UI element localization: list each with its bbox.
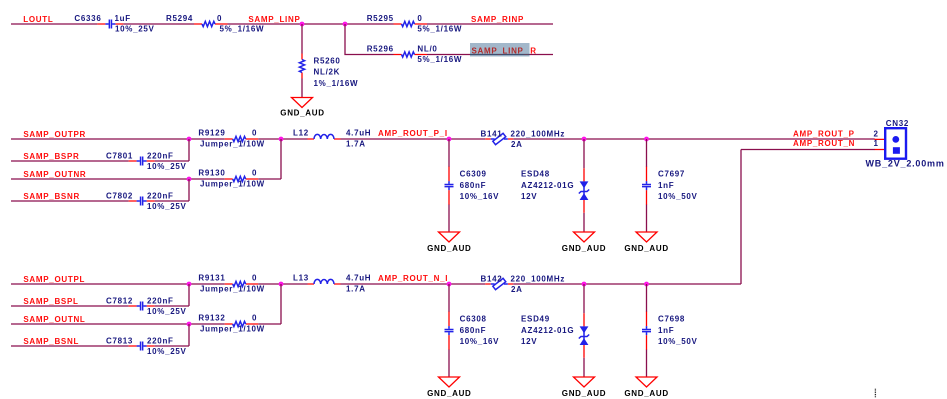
wire C7697 branch [646, 139, 648, 232]
node SAMP_LINP_R selection highlight [470, 43, 530, 57]
ferrite bead B142 [485, 278, 513, 289]
svg-text:Jumper_1/10W: Jumper_1/10W [200, 179, 265, 188]
ground GND_AUD under C7697 [636, 232, 657, 242]
capacitor C7813 [129, 342, 155, 351]
svg-text:1nF: 1nF [658, 181, 674, 190]
svg-text:AMP_ROUT_N_I: AMP_ROUT_N_I [378, 274, 448, 283]
resistor R9132 [225, 321, 259, 326]
svg-text:Jumper_1/10W: Jumper_1/10W [200, 284, 265, 293]
svg-text:5%_1/16W: 5%_1/16W [220, 25, 265, 34]
svg-text:C7813: C7813 [106, 337, 133, 346]
svg-text:L12: L12 [293, 129, 309, 138]
svg-text:10%_16V: 10%_16V [460, 337, 500, 346]
svg-text:12V: 12V [521, 192, 537, 201]
wire SAMP_BSPL row [11, 284, 189, 306]
svg-text:4.7uH: 4.7uH [346, 129, 371, 138]
svg-text:GND_AUD: GND_AUD [624, 244, 668, 253]
svg-text:Jumper_1/10W: Jumper_1/10W [200, 324, 265, 333]
dotted selection mark [874, 389, 876, 398]
svg-text:220nF: 220nF [147, 337, 174, 346]
junction BSNL joins OUTNL [187, 322, 192, 327]
svg-text:R5260: R5260 [314, 57, 341, 66]
svg-text:4.7uH: 4.7uH [346, 274, 371, 283]
svg-text:R9130: R9130 [198, 169, 225, 178]
svg-text:SAMP_BSNR: SAMP_BSNR [23, 192, 80, 201]
junction at R5260 branch [300, 22, 305, 27]
svg-text:10%_25V: 10%_25V [147, 307, 187, 316]
ground GND_AUD under ESD49 [574, 377, 595, 387]
svg-text:10%_16V: 10%_16V [460, 192, 500, 201]
svg-text:AMP_ROUT_P_I: AMP_ROUT_P_I [378, 129, 448, 138]
svg-text:1%_1/16W: 1%_1/16W [314, 79, 359, 88]
wire R5296 to SAMP_LINP_R end [427, 54, 553, 56]
svg-text:1.7A: 1.7A [346, 284, 366, 293]
wire SAMP_BSNR row [11, 179, 189, 201]
svg-text:680nF: 680nF [460, 181, 487, 190]
svg-text:WB_2V_2.00mm: WB_2V_2.00mm [866, 158, 945, 168]
wire L13 to B142 [341, 283, 486, 285]
svg-text:GND_AUD: GND_AUD [562, 389, 606, 398]
svg-text:SAMP_LINP: SAMP_LINP [248, 15, 300, 24]
junction BSPR joins OUTPR [187, 137, 192, 142]
resistor R5294 [194, 21, 228, 26]
svg-text:10%_25V: 10%_25V [115, 25, 155, 34]
svg-text:680nF: 680nF [460, 326, 487, 335]
svg-text:0: 0 [252, 129, 257, 138]
svg-text:0: 0 [417, 14, 422, 23]
svg-text:10%_25V: 10%_25V [147, 347, 187, 356]
ferrite bead B141 [485, 133, 513, 144]
svg-text:220nF: 220nF [147, 152, 174, 161]
svg-text:2A: 2A [511, 140, 523, 149]
svg-text:SAMP_OUTNL: SAMP_OUTNL [23, 315, 85, 324]
junction at R5296 branch [343, 22, 348, 27]
svg-text:10%_50V: 10%_50V [658, 192, 698, 201]
junction ESD48 branch [582, 137, 587, 142]
junction R9130 joins at L12 input [279, 137, 284, 142]
wire R5295 to SAMP_RINP end [427, 23, 553, 25]
wire junction down to R5260 [301, 24, 303, 97]
svg-text:GND_AUD: GND_AUD [427, 244, 471, 253]
wire SAMP_OUTNR row [11, 139, 281, 179]
svg-text:0: 0 [252, 169, 257, 178]
junction C7697 branch [644, 137, 649, 142]
svg-text:0: 0 [252, 274, 257, 283]
svg-text:R9131: R9131 [198, 274, 225, 283]
svg-text:R9132: R9132 [198, 314, 225, 323]
connector CN32 [875, 128, 907, 159]
svg-text:R: R [530, 47, 536, 56]
junction C7698 branch [644, 282, 649, 287]
inductor L12 [308, 134, 341, 139]
svg-text:GND_AUD: GND_AUD [280, 109, 324, 118]
svg-text:CN32: CN32 [886, 119, 909, 128]
wire C7698 branch [646, 284, 648, 377]
wire SAMP_OUTPL row [11, 283, 225, 285]
capacitor C7697 [642, 167, 651, 205]
svg-text:R5295: R5295 [367, 14, 394, 23]
svg-text:1nF: 1nF [658, 326, 674, 335]
wire ESD49 branch [583, 284, 585, 377]
svg-text:10%_50V: 10%_50V [658, 337, 698, 346]
svg-text:1: 1 [874, 139, 879, 148]
wire branch down to R5296 row [345, 24, 394, 55]
junction BSPL joins OUTPL [187, 282, 192, 287]
capacitor C7802 [129, 197, 155, 206]
svg-text:SAMP_OUTPL: SAMP_OUTPL [23, 275, 85, 284]
ground GND_AUD top [292, 98, 313, 108]
junction R9132 joins at L13 input [279, 282, 284, 287]
svg-text:AZ4212-01G: AZ4212-01G [521, 181, 574, 190]
svg-text:C7698: C7698 [658, 315, 685, 324]
wire R9129 to L12 [258, 138, 307, 140]
svg-text:SAMP_BSNL: SAMP_BSNL [23, 337, 79, 346]
svg-text:12V: 12V [521, 337, 537, 346]
resistor R5260 [299, 54, 304, 79]
svg-text:C6309: C6309 [460, 170, 487, 179]
svg-text:C7801: C7801 [106, 152, 133, 161]
svg-text:SAMP_BSPR: SAMP_BSPR [23, 152, 79, 161]
svg-text:220nF: 220nF [147, 297, 174, 306]
capacitor C7801 [129, 157, 155, 166]
wire SAMP_BSPR row [11, 139, 189, 161]
wire B141 to CN32 pin 2 [513, 138, 874, 140]
svg-text:C6336: C6336 [74, 14, 101, 23]
junction C6308 branch [447, 282, 452, 287]
svg-text:220_100MHz: 220_100MHz [511, 274, 566, 283]
svg-text:5%_1/16W: 5%_1/16W [417, 55, 462, 64]
resistor R9130 [225, 176, 259, 181]
svg-text:AMP_ROUT_N: AMP_ROUT_N [793, 139, 855, 148]
svg-text:SAMP_RINP: SAMP_RINP [471, 15, 524, 24]
svg-text:C7802: C7802 [106, 192, 133, 201]
svg-text:ESD48: ESD48 [521, 170, 550, 179]
svg-text:B141: B141 [481, 129, 503, 138]
svg-text:L13: L13 [293, 274, 309, 283]
svg-text:SAMP_OUTPR: SAMP_OUTPR [23, 130, 86, 139]
svg-text:LOUTL: LOUTL [23, 15, 53, 24]
svg-text:B142: B142 [481, 274, 503, 283]
svg-text:0: 0 [252, 314, 257, 323]
svg-text:NL/2K: NL/2K [314, 68, 341, 77]
TVS diode ESD48 [579, 168, 589, 213]
ground GND_AUD under C6309 [439, 232, 460, 242]
svg-text:2: 2 [874, 130, 879, 139]
svg-text:10%_25V: 10%_25V [147, 162, 187, 171]
svg-text:220_100MHz: 220_100MHz [511, 129, 566, 138]
svg-text:2A: 2A [511, 285, 523, 294]
svg-text:NL/0: NL/0 [417, 45, 437, 54]
svg-text:1uF: 1uF [115, 14, 131, 23]
svg-text:AMP_ROUT_P: AMP_ROUT_P [793, 129, 855, 138]
wire R5294 to junctions SAMP_LINP [228, 23, 394, 25]
svg-text:5%_1/16W: 5%_1/16W [417, 25, 462, 34]
svg-text:Jumper_1/10W: Jumper_1/10W [200, 139, 265, 148]
svg-text:1.7A: 1.7A [346, 139, 366, 148]
svg-text:GND_AUD: GND_AUD [624, 389, 668, 398]
resistor R5296 [394, 52, 428, 57]
resistor R9129 [225, 136, 259, 141]
wire C6308 branch [448, 284, 450, 377]
inductor L13 [308, 279, 341, 284]
svg-text:0: 0 [217, 14, 222, 23]
svg-text:R9129: R9129 [198, 129, 225, 138]
svg-text:C6308: C6308 [460, 315, 487, 324]
capacitor C6308 [445, 312, 454, 350]
wire B142 to CN32 pin 1 [513, 150, 874, 285]
ground GND_AUD under C7698 [636, 377, 657, 387]
resistor R5295 [394, 21, 428, 26]
junction C6309 branch [447, 137, 452, 142]
junction ESD49 branch [582, 282, 587, 287]
svg-text:ESD49: ESD49 [521, 315, 550, 324]
svg-text:R5294: R5294 [166, 14, 193, 23]
capacitor C7812 [129, 302, 155, 311]
wire SAMP_BSNL row [11, 324, 189, 346]
ground GND_AUD under ESD48 [574, 232, 595, 242]
svg-text:SAMP_BSPL: SAMP_BSPL [23, 297, 78, 306]
svg-text:GND_AUD: GND_AUD [562, 244, 606, 253]
wire SAMP_OUTPR row [11, 138, 225, 140]
TVS diode ESD49 [579, 313, 589, 358]
wire C6309 branch [448, 139, 450, 232]
svg-text:C7697: C7697 [658, 170, 685, 179]
resistor R9131 [225, 281, 259, 286]
svg-text:SAMP_OUTNR: SAMP_OUTNR [23, 170, 86, 179]
junction BSNR joins OUTNR [187, 177, 192, 182]
svg-text:10%_25V: 10%_25V [147, 202, 187, 211]
capacitor C6336 [97, 20, 123, 29]
svg-text:SAMP_LINP_: SAMP_LINP_ [472, 47, 529, 56]
ground GND_AUD under C6308 [439, 377, 460, 387]
wire ESD48 branch [583, 139, 585, 232]
svg-text:R5296: R5296 [367, 45, 394, 54]
svg-text:220nF: 220nF [147, 192, 174, 201]
svg-text:AZ4212-01G: AZ4212-01G [521, 326, 574, 335]
wire SAMP_OUTNL row [11, 284, 281, 324]
wire LOUTL to C6336 [11, 23, 97, 25]
svg-text:GND_AUD: GND_AUD [427, 389, 471, 398]
svg-text:C7812: C7812 [106, 297, 133, 306]
capacitor C6309 [445, 167, 454, 205]
wire L12 to B141 [341, 138, 486, 140]
wire C6336 to R5294 [123, 23, 194, 25]
wire R9131 to L13 [258, 283, 307, 285]
capacitor C7698 [642, 312, 651, 350]
